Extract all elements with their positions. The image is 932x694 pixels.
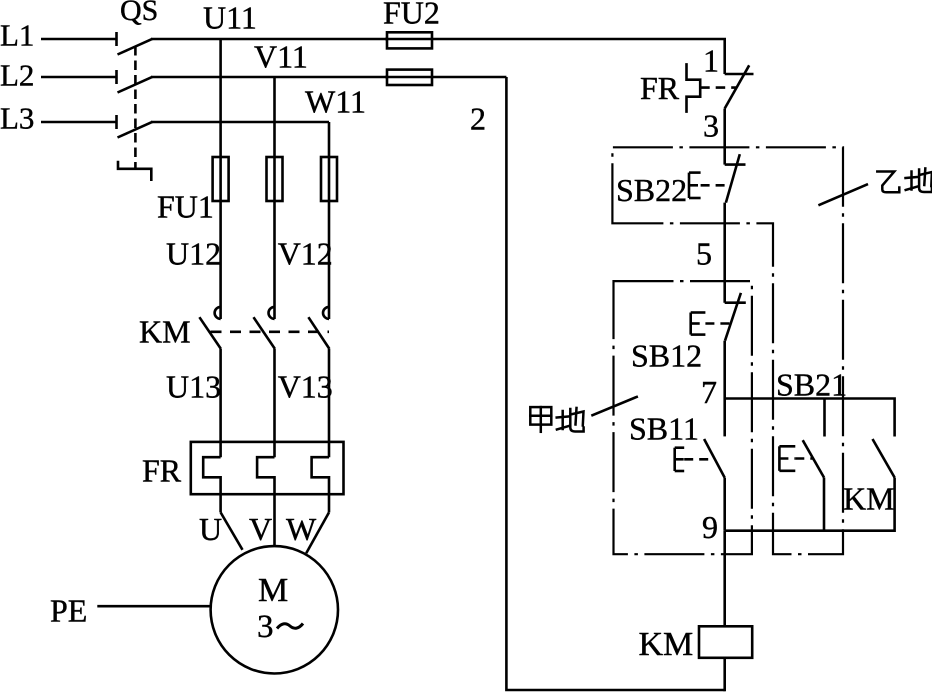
box location A (jiadi) [614, 281, 752, 554]
svg-text:FR: FR [640, 70, 680, 106]
svg-text:1: 1 [703, 43, 719, 79]
svg-text:2: 2 [470, 101, 486, 137]
label jiadi (location A) [530, 407, 583, 432]
svg-text:L3: L3 [0, 101, 34, 136]
fuse FU1-U [213, 157, 229, 201]
wire U into motor [221, 512, 243, 549]
svg-text:W11: W11 [305, 84, 366, 120]
leader line jiadi [591, 396, 638, 415]
wire node3-5 [723, 203, 726, 303]
switch QS pole 1 [117, 32, 153, 55]
svg-text:SB12: SB12 [631, 337, 702, 373]
wire W11 vertical [328, 122, 331, 319]
svg-text:L1: L1 [0, 18, 34, 53]
thermal relay FR box [191, 442, 344, 494]
contactor KM main contact U [199, 307, 221, 457]
wire W into motor [306, 512, 329, 553]
wire L1 in [41, 38, 117, 41]
wire U11 vertical [219, 39, 222, 319]
leader line yidi [818, 184, 868, 205]
motor M [211, 546, 338, 673]
thermal element symbol FR [687, 63, 737, 113]
heater element W [312, 457, 329, 512]
wire V11 vertical [273, 77, 276, 319]
fuse FU1-V [267, 157, 283, 201]
svg-text:3: 3 [703, 108, 719, 144]
svg-text:KM: KM [639, 626, 694, 663]
svg-text:KM: KM [843, 481, 895, 517]
wire node5-7 [723, 341, 726, 399]
wire node1-3 [723, 109, 726, 165]
pushbutton SB11 (NO start, location A) [704, 399, 725, 531]
wire PE [97, 605, 210, 608]
svg-text:5: 5 [696, 235, 712, 271]
actuator E of SB11 [675, 448, 714, 471]
contact KM auxiliary (NO self-hold) [873, 439, 895, 532]
svg-text:SB22: SB22 [616, 172, 687, 208]
pushbutton SB22 (NC stop, location B) [725, 154, 746, 202]
svg-text:PE: PE [50, 593, 87, 629]
actuator E of SB21 [779, 446, 813, 471]
svg-text:L2: L2 [0, 58, 34, 93]
wire coil to bottom [723, 658, 726, 692]
svg-text:7: 7 [701, 374, 717, 410]
wire node 7 rail [725, 399, 895, 437]
svg-text:SB11: SB11 [629, 411, 699, 447]
svg-text:U13: U13 [166, 369, 221, 405]
svg-text:U12: U12 [166, 235, 221, 271]
switch QS pole 3 [117, 115, 153, 138]
svg-text:9: 9 [702, 509, 718, 545]
svg-text:M: M [258, 572, 288, 609]
wire L2 to FU2 [151, 76, 387, 79]
svg-text:KM: KM [139, 314, 191, 350]
fuse FU2-1 [385, 32, 725, 74]
svg-text:U11: U11 [203, 0, 257, 36]
svg-text:V11: V11 [254, 39, 308, 75]
actuator E of SB22 [689, 173, 731, 198]
wire L1 to FU2 [151, 38, 387, 41]
wire node9 to coil [723, 531, 726, 627]
wire node 9 rail [725, 529, 895, 532]
svg-text:V13: V13 [278, 369, 333, 405]
svg-text:FU2: FU2 [383, 0, 440, 30]
contactor KM main contact V [254, 307, 275, 457]
svg-text:QS: QS [120, 0, 158, 27]
contactor KM main contact W [308, 307, 329, 457]
svg-text:V12: V12 [278, 235, 333, 271]
coil KM [699, 626, 752, 658]
pushbutton SB21 (NO start, location B) [803, 399, 825, 531]
switch QS pole 2 [117, 70, 153, 93]
wire L3 to W11 [151, 121, 329, 124]
relay contact FR (NC) [725, 65, 754, 108]
svg-text:SB21: SB21 [776, 367, 847, 403]
actuator E of SB12 [691, 313, 731, 335]
label yidi (location B) [877, 168, 932, 192]
wire 2 (from FU2-2 down and across bottom) [506, 77, 724, 690]
svg-text:V: V [249, 511, 272, 547]
switch QS linkage [118, 46, 151, 181]
svg-text:3: 3 [257, 609, 274, 645]
contactor KM linkage [211, 330, 330, 333]
wire L2 in [41, 76, 117, 79]
heater element V [257, 457, 274, 546]
box location B (yidi) [612, 147, 843, 554]
svg-text:U: U [199, 511, 222, 547]
fuse FU2-2 [385, 70, 506, 85]
heater element U [203, 457, 220, 512]
svg-text:FU1: FU1 [157, 189, 214, 225]
pushbutton SB12 (NC stop, location A) [725, 293, 746, 341]
svg-text:FR: FR [142, 453, 182, 489]
fuse FU1-W [321, 157, 337, 201]
wire L3 in [41, 121, 117, 124]
